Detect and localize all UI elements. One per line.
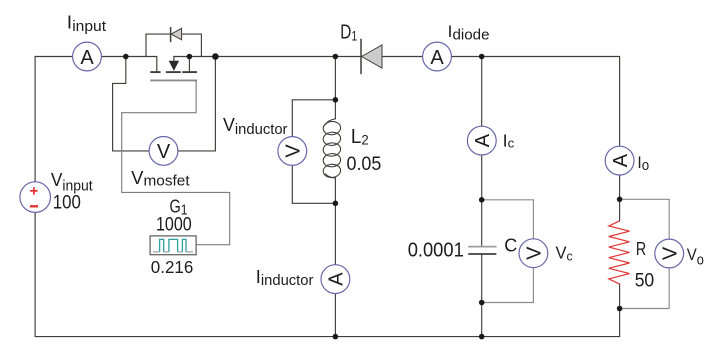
svg-text:A: A (472, 133, 494, 147)
svg-text:V: V (157, 141, 171, 163)
svg-text:0.0001: 0.0001 (408, 240, 464, 262)
svg-text:100: 100 (53, 193, 81, 214)
svg-text:C: C (504, 235, 517, 255)
svg-text:1000: 1000 (156, 214, 192, 235)
svg-text:0.216: 0.216 (151, 257, 194, 277)
svg-text:A: A (80, 47, 94, 69)
svg-text:V: V (524, 246, 546, 260)
svg-text:R: R (636, 239, 646, 259)
svg-text:V: V (283, 144, 305, 158)
svg-text:A: A (610, 153, 632, 167)
svg-text:50: 50 (635, 271, 655, 292)
svg-text:A: A (326, 272, 348, 286)
svg-text:0.05: 0.05 (347, 154, 382, 175)
svg-text:V: V (660, 246, 682, 260)
svg-text:A: A (430, 47, 444, 69)
